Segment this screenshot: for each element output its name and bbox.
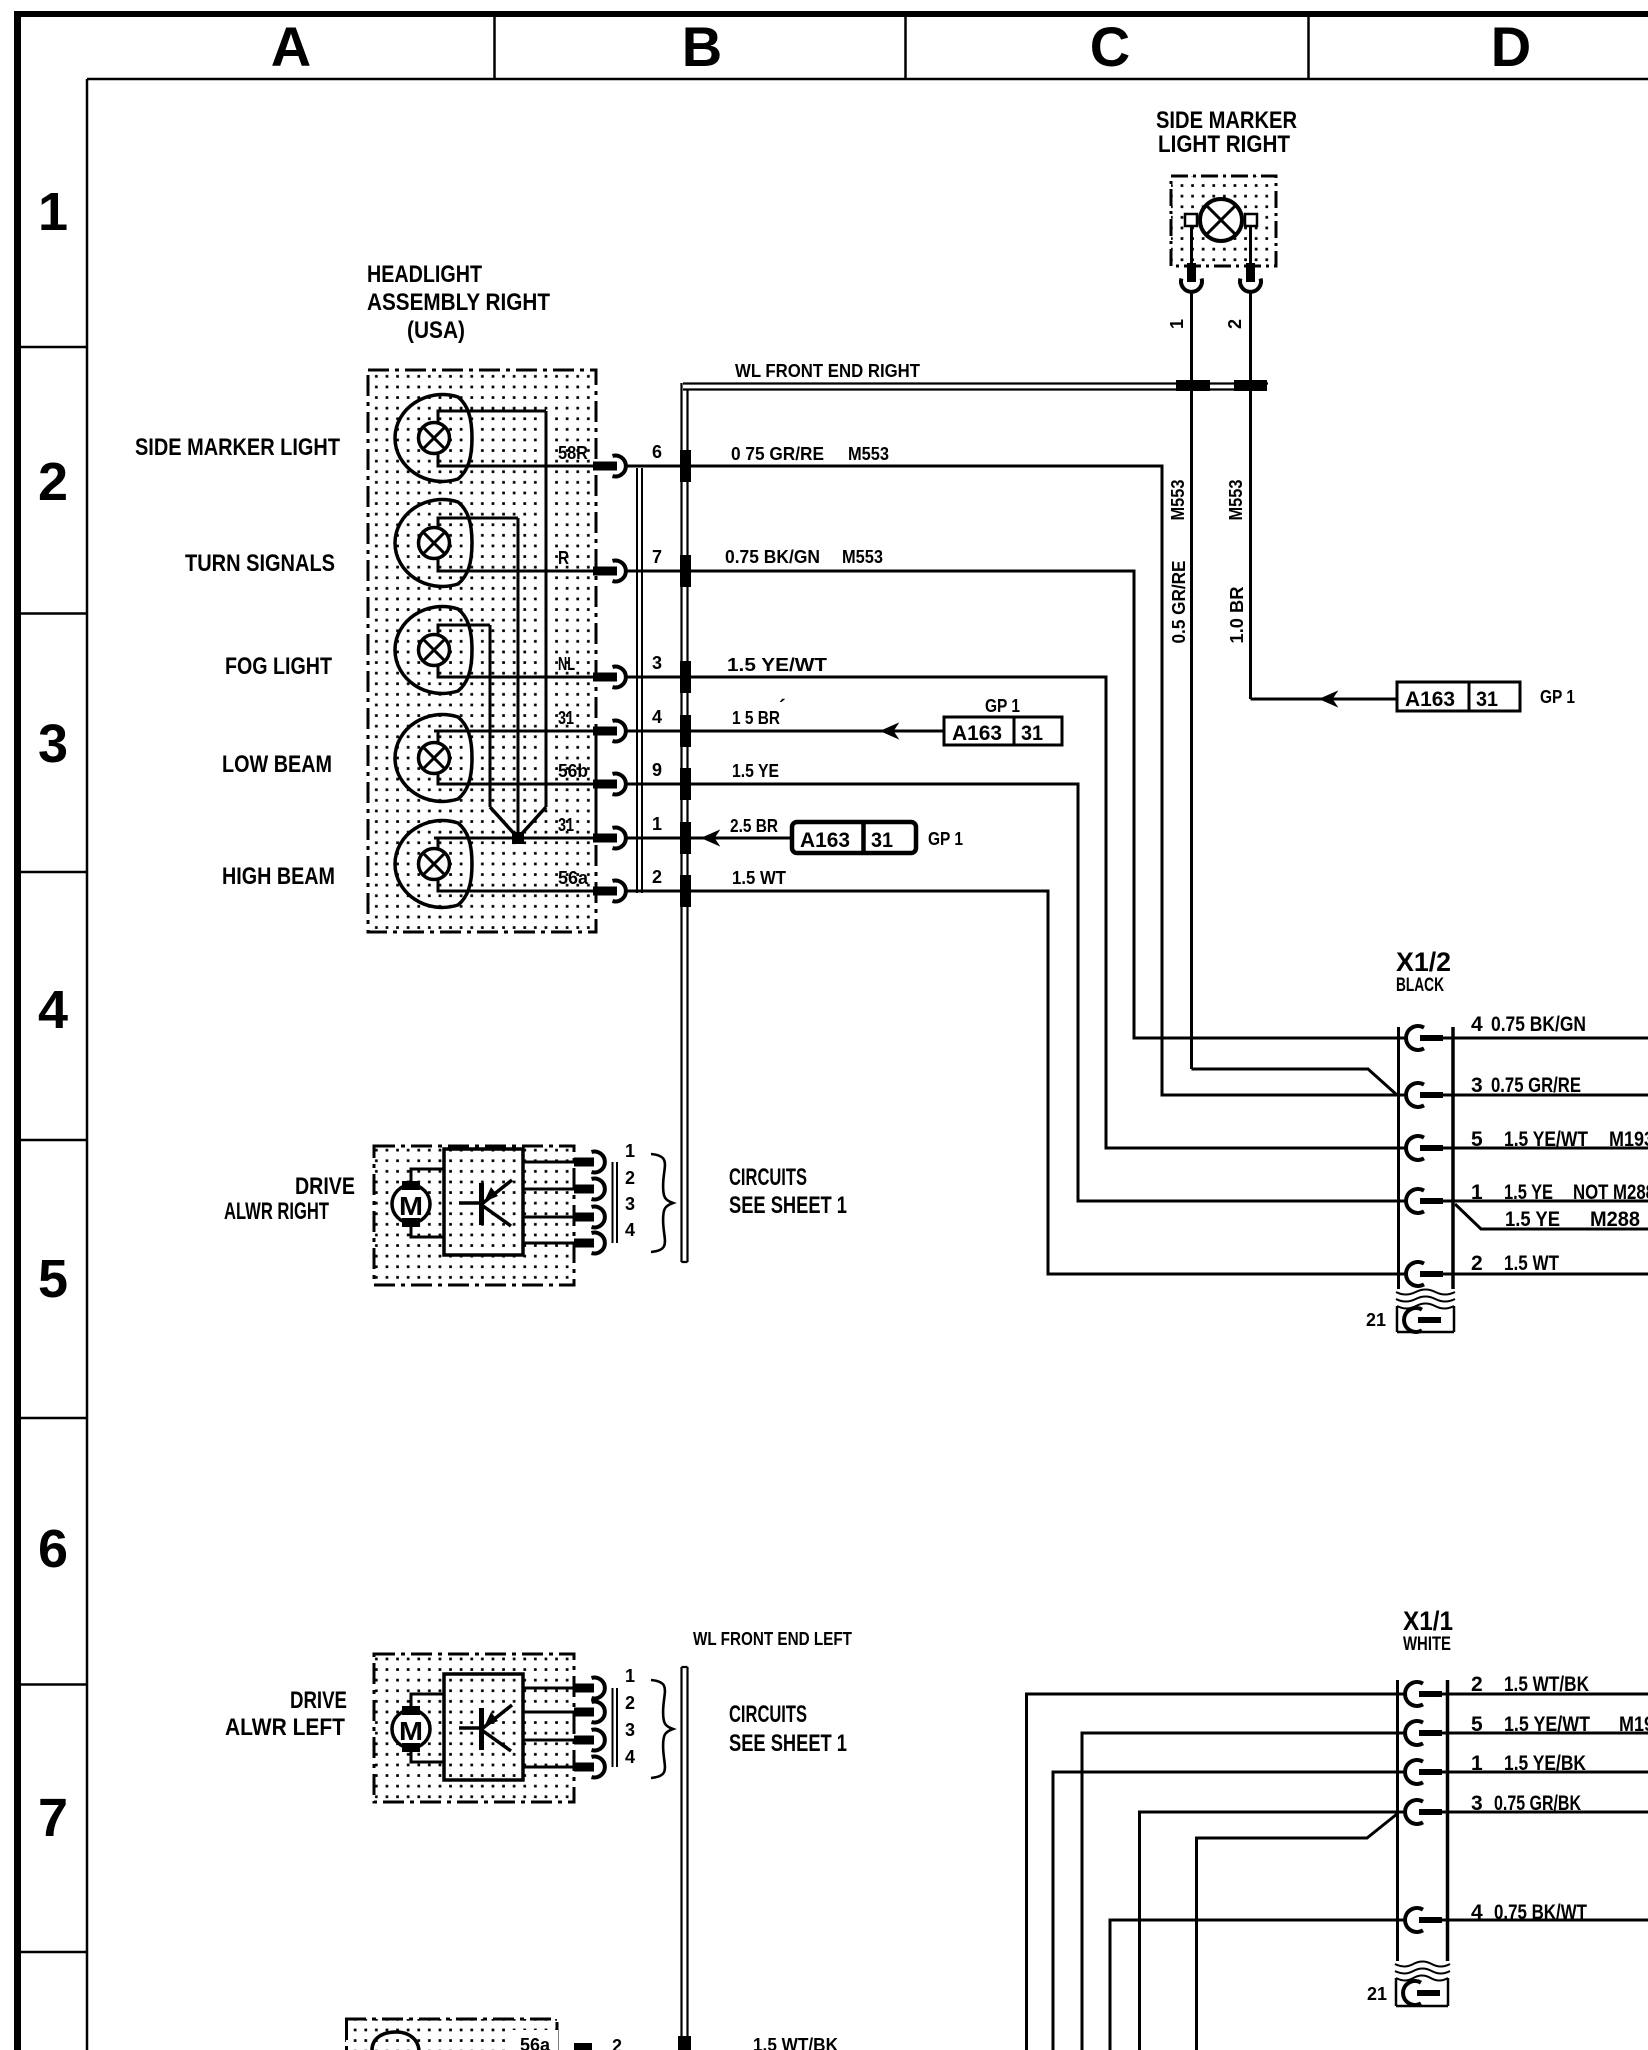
svg-text:FOG LIGHT: FOG LIGHT: [225, 653, 332, 680]
svg-text:3: 3: [625, 1194, 635, 1214]
svg-text:31: 31: [871, 829, 893, 852]
svg-text:GP 1: GP 1: [928, 829, 963, 849]
svg-text:SIDE MARKER LIGHT: SIDE MARKER LIGHT: [135, 434, 340, 461]
svg-text:HEADLIGHT: HEADLIGHT: [367, 261, 482, 288]
svg-text:31: 31: [1476, 688, 1498, 711]
svg-text:6: 6: [652, 442, 662, 462]
svg-text:M553: M553: [842, 547, 883, 567]
svg-text:56a: 56a: [558, 868, 589, 888]
svg-text:1: 1: [652, 814, 662, 834]
svg-text:7: 7: [38, 1788, 68, 1848]
svg-text:M553: M553: [1168, 480, 1188, 521]
svg-text:SEE SHEET 1: SEE SHEET 1: [729, 1730, 847, 1757]
svg-text:31: 31: [558, 708, 574, 728]
svg-text:1: 1: [1167, 319, 1187, 329]
svg-text:ASSEMBLY RIGHT: ASSEMBLY RIGHT: [367, 289, 550, 316]
svg-text:X1/2: X1/2: [1396, 947, 1451, 977]
svg-text:2: 2: [625, 1168, 635, 1188]
svg-text:M: M: [399, 1191, 423, 1221]
svg-text:X1/1: X1/1: [1403, 1606, 1453, 1636]
svg-text:WHITE: WHITE: [1403, 1634, 1451, 1655]
svg-text:1.5 YE: 1.5 YE: [1504, 1181, 1553, 1204]
svg-text:ALWR LEFT: ALWR LEFT: [225, 1714, 345, 1741]
svg-text:LIGHT RIGHT: LIGHT RIGHT: [1158, 131, 1290, 158]
svg-text:1.5 YE/WT: 1.5 YE/WT: [1504, 1713, 1590, 1736]
svg-text:ALWR RIGHT: ALWR RIGHT: [224, 1198, 329, 1225]
svg-text:1: 1: [1471, 1752, 1483, 1775]
svg-text:1.5 YE/BK: 1.5 YE/BK: [1504, 1752, 1586, 1775]
svg-text:2.5 BR: 2.5 BR: [730, 816, 778, 836]
svg-text:56b: 56b: [558, 761, 588, 781]
svg-text:0.75 BK/GN: 0.75 BK/GN: [1491, 1013, 1586, 1036]
svg-text:2: 2: [1471, 1673, 1483, 1696]
svg-text:HIGH BEAM: HIGH BEAM: [222, 863, 335, 890]
svg-text:M193: M193: [1609, 1128, 1648, 1151]
svg-text:1.5 YE/WT: 1.5 YE/WT: [727, 655, 827, 675]
svg-text:CIRCUITS: CIRCUITS: [729, 1701, 807, 1728]
svg-text:4: 4: [38, 980, 68, 1040]
svg-text:1.5 YE: 1.5 YE: [732, 761, 779, 781]
svg-text:1.5 WT/BK: 1.5 WT/BK: [753, 2035, 838, 2050]
svg-text:0.75 BK/GN: 0.75 BK/GN: [725, 547, 820, 567]
svg-text:2: 2: [652, 867, 662, 887]
svg-text:M288: M288: [1590, 1208, 1640, 1231]
svg-text:1: 1: [38, 182, 68, 242]
svg-text:4: 4: [1471, 1901, 1483, 1924]
svg-text:0.75 GR/BK: 0.75 GR/BK: [1494, 1792, 1581, 1815]
svg-text:A163: A163: [1405, 688, 1455, 711]
svg-text:CIRCUITS: CIRCUITS: [729, 1164, 807, 1191]
svg-text:7: 7: [652, 547, 662, 567]
svg-text:M553: M553: [848, 444, 889, 464]
svg-text:GP 1: GP 1: [985, 696, 1020, 716]
svg-text:M: M: [399, 1716, 423, 1746]
svg-text:6: 6: [38, 1519, 68, 1579]
svg-text:DRIVE: DRIVE: [295, 1173, 355, 1200]
svg-text:LOW BEAM: LOW BEAM: [222, 751, 332, 778]
svg-text:21: 21: [1366, 1310, 1386, 1330]
svg-text:GP 1: GP 1: [1540, 687, 1575, 707]
svg-text:NL: NL: [558, 654, 575, 674]
svg-text:1: 1: [625, 1666, 635, 1686]
svg-text:SIDE MARKER: SIDE MARKER: [1156, 107, 1297, 134]
svg-text:WL FRONT END RIGHT: WL FRONT END RIGHT: [735, 361, 920, 381]
svg-text:A163: A163: [800, 829, 850, 852]
svg-text:2: 2: [1225, 319, 1245, 329]
svg-text:0.75 BK/WT: 0.75 BK/WT: [1494, 1901, 1587, 1924]
svg-text:0.75 GR/RE: 0.75 GR/RE: [1491, 1074, 1581, 1097]
svg-text:2: 2: [38, 452, 68, 512]
svg-text:1: 1: [625, 1141, 635, 1161]
svg-text:DRIVE: DRIVE: [290, 1687, 347, 1714]
svg-text:2: 2: [1471, 1252, 1483, 1275]
svg-text:B: B: [682, 15, 722, 78]
svg-text:A163: A163: [952, 722, 1002, 745]
svg-text:A: A: [271, 15, 311, 78]
svg-text:31: 31: [1021, 722, 1043, 745]
svg-text:3: 3: [625, 1720, 635, 1740]
svg-text:4: 4: [652, 707, 662, 727]
svg-text:WL FRONT END LEFT: WL FRONT END LEFT: [693, 1629, 852, 1649]
svg-text:1.5 WT: 1.5 WT: [732, 868, 786, 888]
svg-text:M193: M193: [1619, 1713, 1648, 1736]
svg-text:3: 3: [1471, 1074, 1483, 1097]
svg-text:C: C: [1090, 15, 1130, 78]
svg-text:4: 4: [625, 1747, 635, 1767]
svg-text:TURN SIGNALS: TURN SIGNALS: [185, 550, 335, 577]
svg-text:M553: M553: [1226, 480, 1246, 521]
svg-text:0.5 GR/RE: 0.5 GR/RE: [1169, 561, 1189, 644]
svg-text:58R: 58R: [558, 443, 588, 463]
svg-text:2: 2: [612, 2036, 622, 2050]
svg-text:3: 3: [38, 714, 68, 774]
svg-text:NOT M288: NOT M288: [1573, 1181, 1648, 1204]
svg-text:5: 5: [38, 1249, 68, 1309]
svg-text:1.0 BR: 1.0 BR: [1227, 587, 1247, 644]
svg-text:1.5 YE: 1.5 YE: [1505, 1208, 1560, 1231]
svg-text:5: 5: [1471, 1713, 1483, 1736]
svg-text:BLACK: BLACK: [1396, 975, 1444, 996]
svg-text:SEE SHEET 1: SEE SHEET 1: [729, 1192, 847, 1219]
svg-text:1 5 BR: 1 5 BR: [732, 708, 780, 728]
svg-text:0 75 GR/RE: 0 75 GR/RE: [731, 444, 824, 464]
svg-text:(USA): (USA): [407, 317, 465, 344]
svg-text:5: 5: [1471, 1128, 1483, 1151]
svg-text:1: 1: [1471, 1181, 1483, 1204]
svg-text:21: 21: [1367, 1984, 1387, 2004]
svg-text:2: 2: [625, 1693, 635, 1713]
svg-text:4: 4: [625, 1220, 635, 1240]
svg-text:56a: 56a: [520, 2035, 551, 2050]
svg-text:4: 4: [1471, 1013, 1483, 1036]
svg-text:9: 9: [652, 760, 662, 780]
svg-text:R: R: [558, 548, 569, 568]
svg-text:3: 3: [652, 653, 662, 673]
svg-text:3: 3: [1471, 1792, 1483, 1815]
svg-text:31: 31: [558, 815, 574, 835]
svg-text:´: ´: [779, 697, 786, 719]
svg-text:1.5 WT/BK: 1.5 WT/BK: [1504, 1673, 1589, 1696]
svg-text:1.5 YE/WT: 1.5 YE/WT: [1504, 1128, 1588, 1151]
svg-text:D: D: [1491, 15, 1531, 78]
svg-text:1.5 WT: 1.5 WT: [1504, 1252, 1559, 1275]
